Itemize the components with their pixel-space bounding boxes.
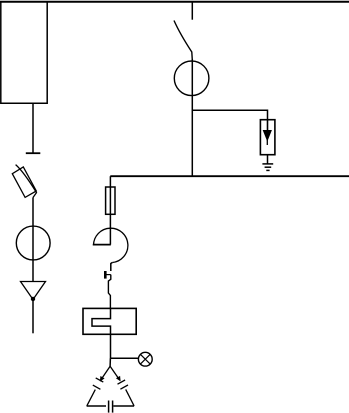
fuse-switch F1 (tilted fuse body) (12, 167, 36, 198)
surge arrester arrow stem (266, 139, 268, 145)
capacitor bank delta: left leg upper (101, 366, 111, 380)
wire: wavy drop to overload relay (108, 275, 110, 309)
base capacitor plates (109, 401, 113, 413)
left leg arrowhead (100, 376, 105, 382)
thermal overload relay body (83, 308, 136, 334)
left leg lower (87, 390, 96, 406)
contactor fixed contact bar (93, 244, 111, 246)
wire: feeder stub from top bus (191, 3, 193, 20)
delta base left (87, 405, 106, 407)
wire: through left instrument (32, 198, 34, 282)
surge arrester arrow (263, 131, 271, 141)
instrument circle (left) (16, 226, 50, 260)
wire: relay to junction (110, 334, 112, 358)
wire: top busbar (0, 1, 349, 3)
incoming supply box (1, 3, 47, 104)
wire: middle feeder drop (109, 176, 111, 244)
surge arrester inner stem (267, 120, 269, 132)
contactor arc (93, 228, 127, 262)
wire: junction to capacitor delta (109, 358, 111, 366)
load triangle (left, apex down) (21, 282, 46, 300)
left leg capacitor plates (93, 378, 104, 389)
ground symbol (262, 164, 273, 171)
fuse F2 (106, 187, 115, 214)
wire: main feeder drop to second bus (191, 59, 193, 176)
indicator lamp cross (140, 354, 150, 364)
right leg upper (110, 366, 120, 380)
wire: branch to surge arrester (192, 110, 267, 119)
wire: left drop (32, 300, 34, 334)
disconnect switch blade (174, 21, 192, 61)
surge arrester body (260, 120, 275, 155)
right leg lower (126, 389, 134, 406)
right leg capacitor plates (118, 380, 129, 389)
indicator lamp (138, 352, 152, 366)
wire: branch to lamp (111, 357, 139, 359)
instrument/meter circle (right) (174, 61, 209, 96)
terminal bar (26, 152, 41, 154)
trip device bar (104, 271, 107, 279)
thermal overload relay heater jog (92, 308, 111, 334)
right leg arrowhead (116, 376, 121, 382)
wire: arc tail (111, 263, 113, 272)
junction dot at triangle apex (31, 297, 35, 301)
wire: second busbar (110, 175, 349, 177)
trip device link (105, 274, 111, 276)
fuse-switch F1 blade (16, 165, 37, 198)
wire: arrester to ground (267, 155, 269, 164)
wire: stub below box (32, 103, 34, 152)
delta base right (113, 405, 134, 407)
